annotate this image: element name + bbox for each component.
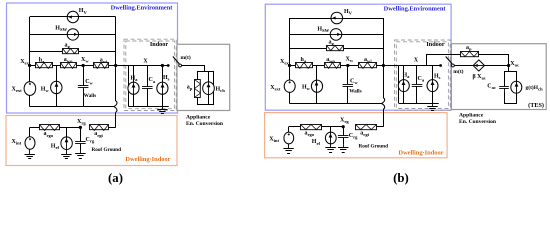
- wire 3rd rail left (a): [30, 51, 63, 53]
- node X_ext (a): [28, 64, 31, 67]
- svg-text:Roof Ground: Roof Ground: [92, 147, 122, 153]
- svg-text:ha: ha: [301, 57, 307, 64]
- wire H_w branch top (a): [56, 66, 58, 82]
- capacitor C_rg (a): [75, 142, 86, 144]
- wire indoor left vertical (a): [128, 66, 130, 107]
- svg-text:(a): (a): [108, 171, 123, 185]
- svg-text:argo: argo: [44, 131, 54, 138]
- wire a_rgi to drop (a): [108, 127, 115, 129]
- ground C_rg (b): [338, 144, 348, 152]
- wire drop to roof (a): [115, 112, 117, 127]
- svg-text:Xext: Xext: [20, 59, 31, 66]
- svg-text:m(t): m(t): [453, 68, 463, 75]
- svg-text:ha: ha: [39, 57, 45, 64]
- voltage source X_ext (b): [284, 80, 295, 92]
- wire H_s bottom (b): [432, 92, 434, 104]
- svg-text:Appliance: Appliance: [459, 113, 484, 119]
- svg-text:Ca: Ca: [149, 77, 156, 84]
- current source H_a (a): [128, 82, 139, 94]
- wire 3rd rail right (b): [344, 48, 384, 50]
- wire switch to diamond (b): [454, 65, 473, 67]
- current source H_s (b): [427, 80, 438, 92]
- svg-text:ap: ap: [466, 45, 472, 52]
- wire H_rf top (b): [330, 127, 332, 132]
- wire right rail (a): [115, 17, 117, 101]
- svg-text:Xrg: Xrg: [340, 118, 349, 125]
- wire H_w branch top (b): [316, 66, 318, 81]
- svg-text:argo: argo: [305, 131, 315, 138]
- svg-text:Ca: Ca: [418, 76, 425, 83]
- wire H_s top (a): [162, 66, 164, 83]
- svg-text:Roof Ground: Roof Ground: [359, 144, 389, 150]
- wire squiggle drop (a): [114, 101, 117, 112]
- ground H_rf (a): [61, 150, 71, 159]
- svg-text:Hs: Hs: [434, 74, 441, 81]
- resistor a_rgi (b): [356, 125, 377, 130]
- svg-text:m(t): m(t): [181, 54, 191, 61]
- wire H_w branch bottom (b): [316, 92, 318, 103]
- box: Dwelling Environment (a): [7, 3, 178, 113]
- current source H_SW (a): [67, 29, 78, 40]
- svg-text:ap: ap: [187, 85, 193, 92]
- capacitor C_a (a): [142, 87, 153, 89]
- wire C_w branch bottom (a): [83, 88, 85, 107]
- wire a_wo to X_w (a): [76, 65, 93, 67]
- wire a_p to X_ac (b): [479, 55, 509, 66]
- current source H_s (a): [157, 82, 168, 94]
- svg-text:Hw: Hw: [41, 86, 50, 93]
- svg-text:Dwelling.Environment: Dwelling.Environment: [384, 6, 447, 13]
- svg-text:Xw: Xw: [81, 57, 89, 64]
- wire switch to appliance loop (a): [182, 66, 205, 72]
- svg-text:Hs: Hs: [163, 75, 170, 82]
- svg-text:Walls: Walls: [84, 93, 96, 99]
- resistor a_wo (a): [61, 63, 77, 69]
- ground X_int (b): [283, 144, 293, 154]
- svg-text:Crg: Crg: [349, 133, 358, 140]
- svg-text:En. Conversion: En. Conversion: [459, 119, 497, 125]
- dependent source beta X_ac (b): [473, 60, 484, 71]
- svg-text:Hrf: Hrf: [51, 143, 60, 150]
- wire C_rg bottom (b): [343, 138, 345, 144]
- svg-text:Xext: Xext: [280, 59, 291, 66]
- capacitor C_rg (b): [338, 136, 349, 138]
- wire H_w branch bottom (a): [56, 94, 58, 107]
- wire roof rail 1 (b): [289, 126, 301, 128]
- wire roof rail 2 (b): [322, 126, 344, 128]
- svg-text:Xint: Xint: [269, 137, 279, 144]
- resistor a_wi (b): [359, 63, 377, 69]
- voltage source X_int (a): [25, 137, 35, 149]
- svg-text:Dwelling.Environment: Dwelling.Environment: [111, 5, 174, 12]
- wire top path to a_p (b): [427, 55, 461, 66]
- svg-text:(b): (b): [393, 171, 409, 185]
- svg-text:argi: argi: [360, 131, 369, 138]
- svg-text:awi: awi: [364, 57, 372, 64]
- wire 2nd rail (b): [290, 34, 384, 36]
- capacitor C_w (a): [78, 86, 89, 88]
- current source H_V (b): [331, 12, 343, 24]
- current source H_w (b): [311, 80, 322, 92]
- wire h_a to a_wo (b): [313, 65, 324, 67]
- current source H_ch (a): [203, 82, 215, 95]
- svg-text:awo: awo: [326, 57, 335, 64]
- ground X_int (a): [25, 149, 35, 158]
- svg-text:Appliance: Appliance: [186, 115, 211, 121]
- wire Xext node to source (b): [289, 66, 291, 81]
- svg-text:awi: awi: [100, 57, 108, 64]
- svg-text:Hrf: Hrf: [312, 139, 321, 146]
- wire 3rd rail right (a): [79, 51, 116, 53]
- wire indoor top rail (b): [399, 65, 441, 67]
- box: Dwelling Environment (b): [265, 4, 451, 110]
- svg-text:Cw: Cw: [350, 79, 358, 86]
- box: Appliance TES (b): [451, 44, 546, 110]
- wire bottom rail (a): [30, 106, 114, 108]
- wire indoor bottom rail (b): [399, 103, 439, 105]
- node X_w (b): [346, 64, 349, 67]
- svg-text:ag: ag: [329, 40, 335, 47]
- wire junction to switch (a): [116, 65, 169, 67]
- voltage source X_int (b): [284, 132, 294, 144]
- wire C_rg top (b): [343, 127, 345, 136]
- svg-text:Dwelling·Indoor: Dwelling·Indoor: [125, 156, 170, 163]
- box: Appliance En. Conversion (a): [177, 44, 230, 110]
- wire C_ac lower stub (b): [504, 88, 506, 91]
- node X_ext (b): [288, 64, 291, 67]
- wire Xext to h_a (b): [290, 65, 296, 67]
- wire 2nd rail (a): [30, 34, 116, 36]
- box: Indoor dashed (a): [124, 39, 176, 110]
- wire a_rgi to drop (b): [377, 126, 383, 128]
- svg-text:HV: HV: [344, 9, 353, 16]
- wire top rail (a): [30, 16, 116, 18]
- wire X_ac down (b): [508, 66, 510, 72]
- svg-text:(TES): (TES): [528, 102, 544, 109]
- node X_ac (b): [507, 64, 510, 67]
- wire bottom rail (b): [290, 103, 382, 105]
- switch m(t) (b): [439, 57, 454, 67]
- wire X_int up (a): [29, 127, 31, 136]
- box: Dwelling Indoor (b): [265, 113, 448, 158]
- box: Dwelling Indoor (a): [6, 116, 177, 166]
- node X_rg (b): [342, 125, 345, 128]
- wire right rail (b): [383, 18, 385, 98]
- svg-text:Crg: Crg: [86, 137, 95, 144]
- svg-text:Xext: Xext: [12, 87, 23, 94]
- capacitor C_ac (b): [499, 87, 509, 89]
- svg-text:ag: ag: [65, 42, 71, 49]
- switch m(t) (a): [167, 57, 182, 67]
- svg-text:HSW: HSW: [317, 27, 329, 34]
- wire C_w branch top (b): [347, 66, 349, 85]
- wire roof rail 2 (a): [59, 127, 80, 129]
- node X_rg (a): [79, 126, 82, 129]
- wire h_a to a_wo (a): [52, 65, 61, 67]
- current source H_V (a): [67, 11, 78, 22]
- svg-text:Xint: Xint: [12, 139, 22, 146]
- svg-text:argi: argi: [94, 131, 103, 138]
- ground C_rg (a): [75, 150, 85, 158]
- resistor a_p (b): [461, 52, 479, 57]
- current source H_SW (b): [330, 29, 342, 41]
- ground H_rf (b): [325, 144, 335, 153]
- svg-text:Xrg: Xrg: [77, 119, 86, 126]
- svg-text:Xac: Xac: [510, 61, 519, 68]
- wire left rail upper (b): [289, 18, 291, 66]
- resistor h_a (b): [296, 63, 313, 69]
- wire H_a bottom (b): [403, 92, 405, 104]
- wire C_a top (b): [416, 66, 418, 85]
- node junction right rail (b): [382, 64, 385, 67]
- wire indoor top rail (a): [129, 65, 169, 67]
- svg-text:Indoor: Indoor: [426, 41, 444, 48]
- current source H_rf (a): [61, 137, 72, 150]
- wire top rail (b): [290, 18, 384, 20]
- wire roof rail 1 (a): [30, 127, 40, 129]
- ground indoor (b): [427, 104, 437, 111]
- box: Indoor dashed (b): [395, 40, 451, 110]
- wire a_wo to X_w (b): [341, 65, 359, 67]
- svg-text:Indoor: Indoor: [150, 41, 168, 48]
- wire H_a top (a): [133, 66, 135, 83]
- wire indoor left vertical (b): [398, 66, 400, 104]
- wire H_s top (b): [432, 66, 434, 80]
- current source H_rf (b): [325, 132, 336, 144]
- wire a_wi to junction (a): [109, 65, 116, 67]
- svg-text:Cac: Cac: [487, 84, 496, 91]
- wire H_s bottom (a): [162, 94, 164, 106]
- wire X_int up (b): [288, 127, 290, 133]
- wire C_rg top (a): [80, 127, 82, 141]
- wire C_a bottom (a): [147, 89, 149, 107]
- svg-text:En. Conversion: En. Conversion: [186, 121, 224, 127]
- current source g(t)H_ch (b): [511, 81, 522, 93]
- wire C_a bottom (b): [416, 86, 418, 103]
- resistor a_wi (a): [94, 63, 109, 69]
- svg-text:awo: awo: [64, 57, 73, 64]
- wire H_rf top (a): [66, 127, 68, 137]
- wire Xext source to bottom (a): [29, 95, 31, 106]
- wire junction to switch (b): [383, 65, 440, 67]
- svg-text:Cw: Cw: [85, 79, 93, 86]
- wire C_w branch top (a): [83, 66, 85, 87]
- node junction right rail (a): [114, 64, 117, 67]
- wire squiggle drop (b): [382, 98, 385, 109]
- svg-text:Walls: Walls: [349, 89, 361, 95]
- node X dot (a): [161, 64, 164, 67]
- resistor h_a (a): [36, 63, 53, 69]
- wire drop to roof (b): [383, 109, 385, 127]
- wire Xext node to source (a): [29, 66, 31, 82]
- wire H_a top (b): [403, 66, 405, 80]
- svg-text:Xw: Xw: [346, 57, 354, 64]
- resistor a_rgi (a): [90, 125, 109, 131]
- resistor a_g (a): [63, 49, 79, 54]
- ground indoor (a): [157, 107, 167, 114]
- current source H_w (a): [51, 81, 62, 93]
- svg-text:Hch: Hch: [216, 86, 226, 93]
- wire H_a bottom (a): [133, 94, 135, 106]
- resistor a_wo (b): [325, 63, 341, 69]
- wire Xext to h_a (a): [30, 65, 35, 67]
- capacitor C_w (b): [343, 85, 354, 87]
- capacitor C_a (b): [412, 85, 423, 87]
- svg-text:Ha: Ha: [403, 73, 411, 80]
- voltage source X_ext (a): [24, 82, 36, 96]
- wire C_a top (a): [147, 66, 149, 87]
- svg-text:Ha: Ha: [131, 76, 139, 83]
- wire left rail upper (a): [29, 17, 31, 66]
- wire diamond to X_ac (b): [485, 65, 509, 67]
- wire TES loop (b): [505, 72, 517, 104]
- svg-text:HV: HV: [79, 8, 88, 15]
- node X_w (a): [82, 64, 85, 67]
- svg-text:Dwelling·Indoor: Dwelling·Indoor: [398, 150, 443, 157]
- wire appliance loop (a): [198, 72, 214, 105]
- wire 3rd rail left (b): [290, 48, 327, 50]
- wire indoor bottom rail (a): [129, 106, 169, 108]
- wire a_wi to junction (b): [377, 65, 384, 67]
- svg-text:HSW: HSW: [55, 25, 67, 32]
- svg-text:Hw: Hw: [302, 85, 311, 92]
- resistor a_rgo (a): [40, 125, 60, 131]
- resistor a_g (b): [327, 46, 344, 51]
- svg-text:β Xac: β Xac: [473, 74, 486, 81]
- resistor a_rgo (b): [301, 125, 322, 130]
- wire C_rg bottom (a): [80, 144, 82, 151]
- wire C_w branch bottom (b): [347, 86, 349, 103]
- svg-text:Xext: Xext: [270, 85, 281, 92]
- current source H_a (b): [398, 80, 409, 92]
- resistor a_p (a): [195, 80, 201, 98]
- wire Xext source to bottom (b): [289, 92, 291, 103]
